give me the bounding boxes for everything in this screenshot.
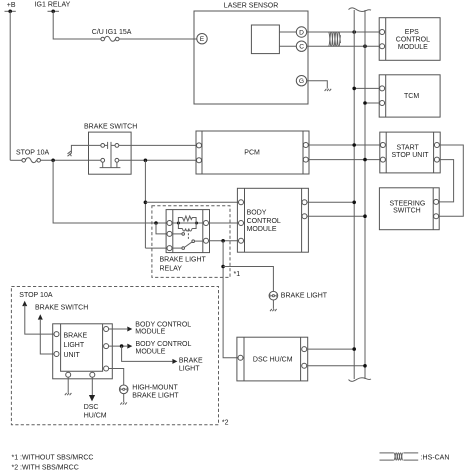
svg-text:MODULE: MODULE — [136, 348, 166, 355]
power tap +B — [5, 2, 16, 13]
arrow to DSC — [89, 395, 95, 401]
node brake-out — [144, 159, 148, 163]
svg-text:BRAKE LIGHT: BRAKE LIGHT — [132, 393, 179, 400]
svg-text:D: D — [299, 30, 304, 37]
wire BLU R3 to high-mount bulb — [109, 369, 124, 386]
wire brake-out down to BCM row — [144, 160, 146, 248]
node bus1-DSC — [352, 347, 356, 351]
node bus2-PCM — [363, 158, 367, 162]
svg-text:BODY: BODY — [247, 210, 267, 217]
relay pin L1 — [167, 221, 172, 226]
SSU pin L1 — [380, 143, 385, 148]
node C-bus2 — [363, 44, 367, 48]
wire STOP to BLU pin1 — [25, 305, 54, 334]
EPS pin 1 — [380, 30, 385, 35]
svg-text::HS-CAN: :HS-CAN — [421, 454, 450, 461]
pin G — [296, 76, 306, 86]
relay contact — [172, 233, 204, 250]
DSC HU/CM — [237, 337, 308, 381]
relay pin L3 — [167, 246, 172, 251]
wire IG1 relay down and right — [53, 11, 101, 39]
label DSC HU/CM (inset) — [84, 404, 107, 419]
node BLU brake branch — [120, 344, 124, 348]
svg-text:DSC: DSC — [84, 404, 99, 411]
DSC pin R1 — [302, 347, 307, 352]
svg-text:+B: +B — [7, 2, 16, 9]
DSC pin L1 — [238, 355, 243, 360]
wire BCM R1 to bus1 — [307, 201, 354, 203]
wire to brake light — [223, 267, 273, 292]
arrow to BCM 2 — [127, 344, 132, 349]
BLU pin L1 — [54, 332, 59, 337]
wire SSU R2 to steering switch upper — [439, 160, 454, 202]
wire G to ground — [307, 81, 328, 89]
svg-text:UNIT: UNIT — [64, 352, 81, 359]
svg-text:MODULE: MODULE — [247, 226, 277, 233]
node bus2-DSC — [363, 364, 367, 368]
BLU pin B2 — [90, 372, 95, 377]
body control module — [237, 188, 308, 252]
wire bus2 to TCM pin2 — [365, 102, 380, 104]
svg-text:*1 :WITHOUT SBS/MRCC: *1 :WITHOUT SBS/MRCC — [12, 455, 94, 462]
arrow to BCM 1 — [127, 327, 132, 332]
brake light relay K1 — [166, 210, 209, 253]
PCM pin R2 — [303, 157, 308, 162]
svg-text:STOP 10A: STOP 10A — [16, 150, 50, 157]
wire C to HS-CAN bus2 and EPS — [307, 45, 380, 47]
svg-text:STOP 10A: STOP 10A — [19, 292, 53, 299]
svg-text:C: C — [299, 44, 304, 51]
node stop-branch — [51, 159, 55, 163]
with SBS/MRCC dashed box — [11, 287, 228, 427]
wire D to HS-CAN bus1 and EPS — [307, 31, 380, 33]
wire brake switch lower row to PCM — [119, 159, 197, 161]
arrow to other circuit — [68, 151, 72, 156]
svg-text:BRAKE: BRAKE — [64, 332, 88, 339]
svg-text:BRAKE: BRAKE — [179, 358, 203, 365]
SSU pin L2 — [380, 157, 385, 162]
wire +B vertical to STOP fuse — [9, 11, 11, 160]
brake light bulb — [269, 291, 328, 300]
arrow to brake light — [172, 359, 177, 364]
wire PCM R1 to start stop unit — [308, 144, 380, 146]
brake switch contacts — [100, 142, 121, 168]
label body control module 1 — [135, 322, 191, 336]
ground (BLU) — [65, 393, 72, 395]
BCM pin L3 — [239, 238, 244, 243]
wire brake switch upper row to PCM — [119, 144, 197, 146]
HS-CAN bus line 2 — [364, 10, 366, 379]
svg-text:LASER SENSOR: LASER SENSOR — [224, 2, 278, 9]
PCM — [196, 131, 309, 174]
brake light relay dashed box — [152, 206, 230, 278]
arrow from STOP 10A — [22, 301, 27, 306]
svg-text:CONTROL: CONTROL — [247, 218, 281, 225]
svg-text:LIGHT: LIGHT — [64, 342, 85, 349]
BLU pin R3 — [104, 366, 109, 371]
wire PCM R2 to start stop unit — [308, 159, 380, 161]
steering pin R1 — [434, 199, 439, 204]
ground (brake light) — [270, 309, 277, 311]
wire branch to brake light arrow — [122, 346, 173, 361]
svg-text:DSC HU/CM: DSC HU/CM — [253, 356, 293, 363]
ground (high-mount) — [120, 402, 127, 404]
node coil branch — [154, 221, 158, 225]
svg-text:*2 :WITH SBS/MRCC: *2 :WITH SBS/MRCC — [12, 465, 79, 472]
wire bus1 to TCM pin1 — [354, 87, 379, 89]
SSU pin R1 — [434, 143, 439, 148]
svg-text:TCM: TCM — [404, 93, 419, 100]
wire stop-branch down to relay coil row — [53, 160, 167, 223]
wire BCM R2 to bus2 — [307, 215, 365, 217]
node bus1-PCM — [352, 143, 356, 147]
EPS pin 2 — [380, 44, 385, 49]
wire fuse to laser sensor pin E — [119, 38, 197, 40]
start stop unit — [380, 132, 440, 173]
wire brake switch upper to other circuit — [71, 145, 100, 153]
relay pin L2 — [167, 231, 172, 236]
svg-text:BRAKE SWITCH: BRAKE SWITCH — [84, 123, 137, 130]
svg-text:PCM: PCM — [244, 149, 260, 156]
BCM pin L2 — [239, 221, 244, 226]
BLU pin R1 — [104, 327, 109, 332]
svg-text:SWITCH: SWITCH — [393, 207, 421, 214]
bus top break — [349, 8, 372, 12]
svg-text:STOP UNIT: STOP UNIT — [392, 152, 430, 159]
pin E — [197, 34, 207, 44]
node brake light branch — [221, 265, 225, 269]
relay pin R2 — [204, 238, 209, 243]
wire BLU R1 to BCM — [109, 328, 127, 330]
node bus1-TCM — [352, 87, 356, 91]
bus bottom break — [349, 378, 372, 382]
node D-bus1 — [352, 30, 356, 34]
wire high-mount bulb to ground — [123, 394, 125, 403]
svg-text:G: G — [299, 78, 304, 85]
node relay out — [221, 239, 225, 243]
node bus2-TCM — [363, 101, 367, 105]
svg-text:BRAKE LIGHT: BRAKE LIGHT — [160, 257, 207, 264]
svg-text:START: START — [397, 144, 420, 151]
label body control module 2 — [136, 341, 192, 355]
node bus2-BCM — [363, 214, 367, 218]
wire to BCM pin1 — [145, 201, 238, 203]
DSC pin R2 — [302, 363, 307, 368]
TCM pin 2 — [380, 101, 385, 106]
svg-text:EPS: EPS — [405, 29, 419, 36]
PCM pin R1 — [303, 143, 308, 148]
wire BRAKE SWITCH to BLU pin2 — [40, 319, 53, 354]
high-mount brake light bulb — [119, 385, 179, 400]
pin C — [279, 41, 306, 51]
svg-text:MODULE: MODULE — [135, 329, 165, 336]
HS-CAN bus line 1 — [353, 10, 355, 379]
brake light unit — [53, 324, 113, 379]
wire brake-out to relay common — [145, 247, 167, 249]
arrow from BRAKE SWITCH — [38, 314, 43, 319]
svg-text:E: E — [200, 36, 205, 43]
svg-text:MODULE: MODULE — [398, 44, 428, 51]
TCM — [379, 75, 440, 117]
BLU pin L2 — [54, 352, 59, 357]
svg-text:*1: *1 — [234, 271, 241, 278]
steering switch — [379, 188, 439, 230]
wire relay out down to DSC — [223, 241, 238, 358]
wire relay R1 to BCM pin2 — [209, 222, 239, 224]
svg-text:CONTROL: CONTROL — [396, 37, 430, 44]
pin D — [279, 27, 306, 37]
laser sensor U1 — [194, 2, 308, 104]
BCM pin R2 — [302, 214, 307, 219]
fuse C/U IG1 15A — [92, 29, 132, 41]
PCM pin L2 — [197, 158, 202, 163]
wire BLU B2 to DSC arrow — [91, 377, 93, 395]
relay mechanical link (dashed) — [187, 230, 189, 241]
wire STOP fuse to brake switch — [41, 159, 101, 161]
svg-text:C/U IG1 15A: C/U IG1 15A — [92, 29, 132, 36]
svg-text:BODY CONTROL: BODY CONTROL — [136, 341, 192, 348]
svg-text:HIGH-MOUNT: HIGH-MOUNT — [132, 385, 178, 392]
svg-text:BODY CONTROL: BODY CONTROL — [135, 322, 191, 329]
twisted pair symbol (laser sensor CAN) — [328, 32, 340, 46]
BLU pin R2 — [104, 344, 109, 349]
svg-text:RELAY: RELAY — [160, 266, 183, 273]
EPS control module — [379, 18, 440, 61]
steering pin R2 — [434, 214, 439, 219]
power tap IG1 RELAY — [35, 2, 71, 13]
legend HS-CAN symbol — [380, 453, 450, 462]
relay pin R1 — [204, 221, 209, 226]
wire DSC R1 to bus1 — [307, 348, 355, 350]
ground (laser sensor) — [325, 89, 332, 91]
TCM pin 1 — [380, 86, 385, 91]
BCM pin L1 — [239, 200, 244, 205]
svg-text:BRAKE LIGHT: BRAKE LIGHT — [281, 292, 328, 299]
BCM pin R1 — [302, 200, 307, 205]
BLU pin B1 — [66, 372, 71, 377]
svg-text:IG1 RELAY: IG1 RELAY — [35, 2, 71, 9]
label brake light (inset) — [179, 358, 203, 373]
svg-text:BRAKE SWITCH: BRAKE SWITCH — [35, 304, 88, 311]
wire bulb to ground — [272, 300, 274, 309]
wire BLU B1 to ground — [67, 377, 69, 393]
PCM pin L1 — [197, 143, 202, 148]
SSU pin R2 — [434, 157, 439, 162]
brake switch SW1 — [84, 123, 137, 174]
svg-text:*2: *2 — [222, 420, 229, 427]
wire DSC R2 to bus2 — [307, 365, 365, 367]
laser sensor inner block — [251, 25, 279, 54]
node brake-BCM — [144, 201, 148, 205]
relay coil — [172, 216, 203, 231]
wire BLU R2 to BCM — [109, 345, 127, 347]
wire SSU R1 to steering switch lower — [439, 145, 464, 216]
svg-text:HU/CM: HU/CM — [84, 413, 107, 420]
svg-text:LIGHT: LIGHT — [179, 366, 200, 373]
node bus1-BCM — [352, 201, 356, 205]
wire branch to relay pin2 — [156, 223, 167, 234]
wire relay R2 to BCM pin3 — [209, 240, 239, 242]
fuse STOP 10A — [10, 150, 49, 163]
